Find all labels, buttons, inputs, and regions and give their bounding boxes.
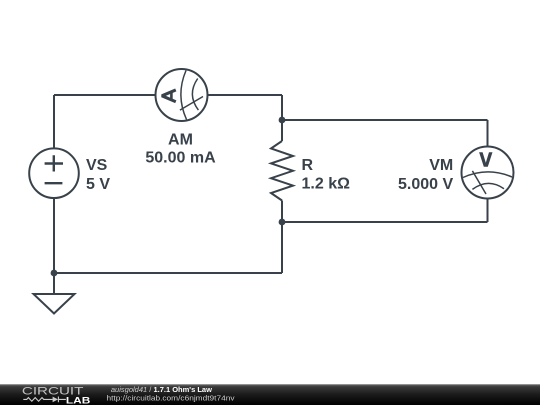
svg-text:VM: VM	[429, 157, 453, 174]
svg-text:AM: AM	[168, 131, 193, 148]
svg-text:5 V: 5 V	[86, 176, 110, 193]
svg-text:5.000 V: 5.000 V	[398, 176, 453, 193]
svg-text:http://circuitlab.com/c6njmdt9: http://circuitlab.com/c6njmdt9t74nv	[107, 394, 235, 403]
svg-text:50.00 mA: 50.00 mA	[145, 149, 216, 166]
svg-text:VS: VS	[86, 157, 108, 174]
svg-text:R: R	[302, 157, 314, 174]
svg-text:auisgold41 / 1.7.1 Ohm's Law: auisgold41 / 1.7.1 Ohm's Law	[111, 385, 212, 394]
svg-text:LAB: LAB	[66, 395, 91, 405]
svg-text:1.2 kΩ: 1.2 kΩ	[302, 176, 351, 193]
